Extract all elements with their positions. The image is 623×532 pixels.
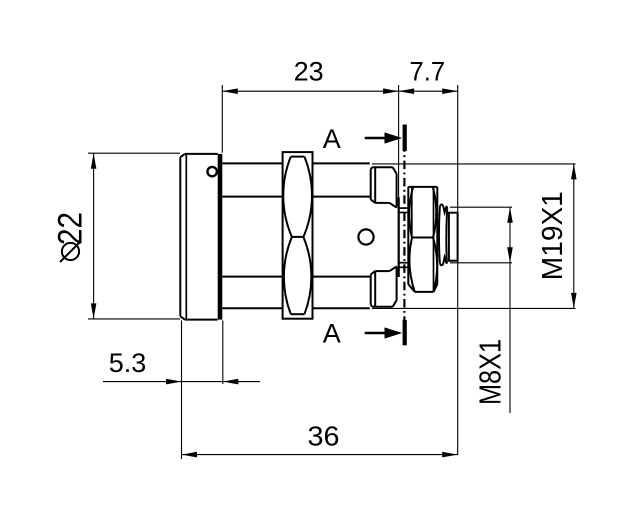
svg-text:36: 36 [308,421,340,452]
svg-text:A: A [323,319,341,349]
svg-text:7.7: 7.7 [410,56,446,86]
svg-text:M8X1: M8X1 [473,339,508,405]
svg-text:M19X1: M19X1 [537,191,569,280]
svg-text:5.3: 5.3 [109,348,147,378]
svg-text:23: 23 [294,56,324,86]
svg-text:22: 22 [52,212,90,245]
svg-text:A: A [323,124,341,154]
